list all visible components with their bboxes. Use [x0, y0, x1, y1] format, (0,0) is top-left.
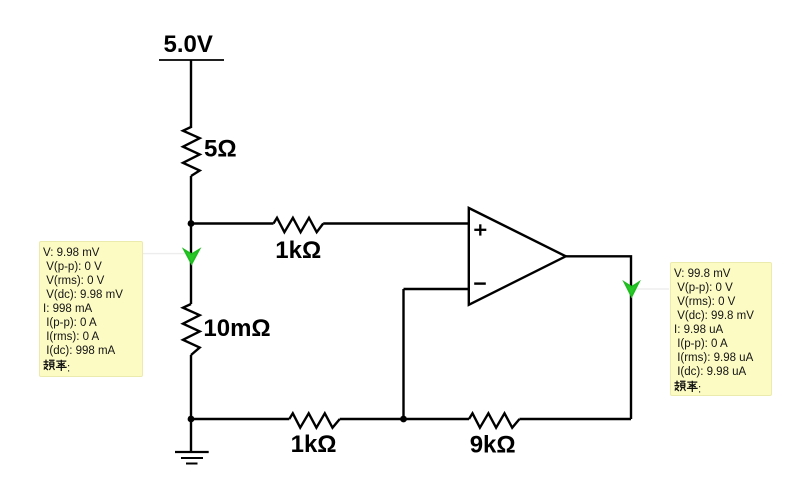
node C junction dot	[400, 416, 407, 423]
feedback wire down to node C	[402, 289, 404, 419]
resistor R3 1kΩ	[274, 218, 324, 232]
current probe arrow 2	[624, 282, 638, 296]
probe readout box 2	[670, 262, 772, 396]
resistor R4 1kΩ	[289, 413, 340, 427]
resistor R1 5Ω	[183, 127, 200, 176]
wire node A to R3	[191, 222, 274, 224]
node A junction dot	[188, 220, 195, 227]
wire op-amp - input	[404, 288, 469, 290]
svg-text:1kΩ: 1kΩ	[275, 237, 321, 264]
ground	[175, 419, 209, 464]
wire R1 to node A and on to R2	[190, 176, 192, 304]
wire R3 to op-amp + input	[323, 222, 469, 224]
leader line probe 1	[143, 253, 189, 255]
wire R4 to node C	[340, 418, 469, 420]
output wire	[566, 256, 631, 419]
op-amp U1	[469, 208, 566, 305]
power rail 5.0V	[159, 59, 224, 61]
resistor R5 9kΩ	[469, 413, 520, 427]
svg-text:5.0V: 5.0V	[164, 31, 213, 58]
svg-text:5Ω: 5Ω	[204, 136, 237, 163]
wire power to R1	[190, 60, 192, 128]
svg-text:9kΩ: 9kΩ	[470, 432, 516, 459]
current probe arrow 1	[184, 250, 199, 264]
wire R2 to ground node	[190, 355, 192, 419]
node B junction dot	[188, 416, 195, 423]
probe readout box 1	[39, 241, 143, 377]
wire R5 to output corner	[520, 418, 632, 420]
svg-text:1kΩ: 1kΩ	[291, 431, 337, 458]
svg-text:10mΩ: 10mΩ	[203, 315, 270, 342]
resistor R2 10mΩ	[183, 304, 200, 355]
leader line probe 2	[634, 288, 669, 290]
wire node B to R4	[191, 418, 289, 420]
